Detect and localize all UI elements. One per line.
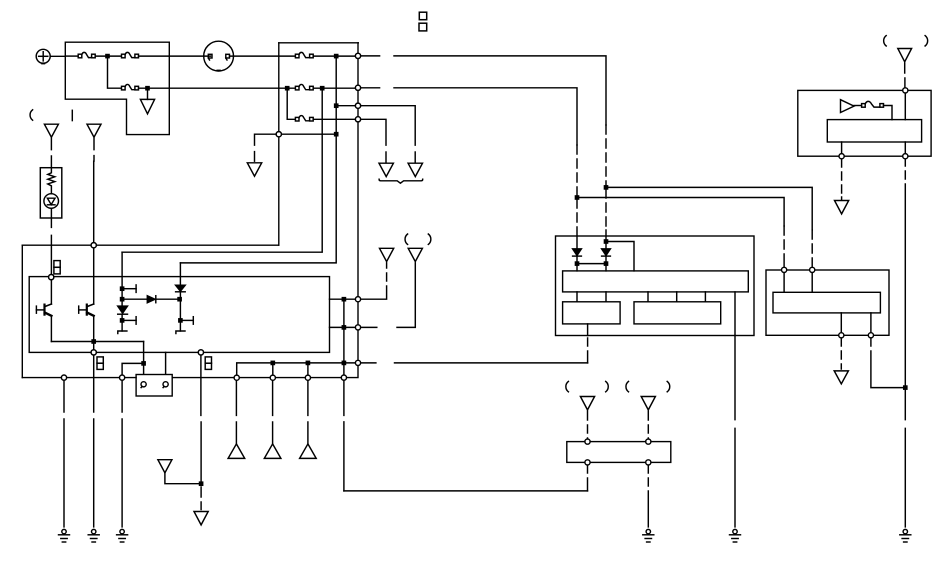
ground bus (outer unit bottom edge) xyxy=(22,366,358,378)
ring fuse box left xyxy=(276,132,281,137)
connector ring inner box bottom right xyxy=(198,350,203,355)
wire lamp to control unit xyxy=(50,208,52,274)
dashed drop to ring xyxy=(811,230,813,267)
rings right control module xyxy=(782,267,787,272)
ignition switch SW1 xyxy=(204,41,234,71)
driver column 1 xyxy=(118,252,136,333)
branch wire to right control unit xyxy=(606,187,812,230)
pin wire y=299 from inner box xyxy=(330,298,359,300)
wire row2 inside box xyxy=(279,87,295,89)
dashed drop to ground xyxy=(647,465,649,527)
connector triangle up xyxy=(264,444,281,459)
dashed drop to rail xyxy=(587,338,589,363)
wire Q1/Q2 emitters to relay xyxy=(51,341,143,343)
feed through wire xyxy=(842,93,906,154)
pin wire y=327 from inner box xyxy=(330,326,359,328)
pin stubs xyxy=(577,292,705,302)
relay box xyxy=(136,375,172,397)
junction dot and branch to logic xyxy=(604,240,607,243)
ground wire from bus ring 1 xyxy=(63,380,65,527)
connector triangle xyxy=(379,163,393,176)
dashed drops into switch block xyxy=(587,411,589,439)
ring inner box top xyxy=(49,275,54,280)
wire to main ground line xyxy=(871,338,905,388)
sensor drop 2 xyxy=(272,380,274,444)
main ground line from left module xyxy=(734,336,736,527)
fuse F2 xyxy=(122,52,139,57)
label bracket ( xyxy=(405,234,408,244)
ring outer box top xyxy=(91,243,96,248)
dashed xyxy=(254,152,256,162)
dashed tail xyxy=(200,487,202,510)
label bracket ( xyxy=(884,36,887,46)
fuse F1 xyxy=(78,52,95,57)
cathode tie wire xyxy=(577,263,606,265)
diagnostic wire from inner box ring xyxy=(200,355,202,482)
dashed drop to lower link xyxy=(587,465,589,491)
legend square 2 xyxy=(419,23,427,31)
diode D1 between columns xyxy=(122,296,181,303)
wire switch to middle fuse box xyxy=(230,55,279,57)
wire row4 to connector drop xyxy=(361,106,416,145)
logic block U4 xyxy=(773,292,880,313)
sub block U3 xyxy=(634,302,721,324)
ground G4 xyxy=(117,529,128,542)
junction dot xyxy=(342,326,345,329)
legend square 1 xyxy=(419,12,426,20)
collector rail xyxy=(237,363,588,378)
ground drop from U1 xyxy=(734,292,736,336)
switch block xyxy=(567,442,671,463)
relay unit box xyxy=(798,90,931,156)
battery B1 xyxy=(36,49,50,63)
wire into transistor Q1 xyxy=(50,280,52,304)
relay block U5 xyxy=(827,120,921,142)
LED lamp xyxy=(44,194,59,209)
junction dot xyxy=(92,340,95,343)
wire ring to connector triangle xyxy=(361,286,387,299)
ground G6 xyxy=(730,529,741,542)
dashed drop to connector xyxy=(840,338,842,369)
branch to ground arrow G1 xyxy=(147,90,149,100)
sub block U2 xyxy=(563,302,621,324)
rings fuse box right edge xyxy=(355,53,360,58)
amplifier triangle xyxy=(841,100,855,113)
main ground line right side xyxy=(904,159,906,527)
fuse F5 xyxy=(295,84,313,89)
junction dot xyxy=(335,133,338,136)
ground wire from Q2 line xyxy=(93,355,95,527)
connector rings overlay xyxy=(49,53,908,465)
Q1 emitter wire down xyxy=(50,316,52,342)
branch down from dot xyxy=(108,58,121,89)
output stubs xyxy=(841,313,871,333)
dashed wire below triangle xyxy=(50,138,52,168)
vertical feed from row1 dot down to wire 263 xyxy=(180,58,336,263)
drop rail x=344 xyxy=(343,299,345,377)
dashed drop to ring xyxy=(783,226,785,267)
dashed drop xyxy=(576,145,578,196)
connector triangle xyxy=(834,371,848,384)
rings ground bus xyxy=(61,375,66,380)
junction dot xyxy=(142,362,145,365)
output drop from U2 xyxy=(587,324,589,336)
connector triangle xyxy=(835,201,849,214)
transistor Q1 xyxy=(36,304,51,316)
sensor drop 1 xyxy=(235,380,237,444)
wire row3 to connector drop xyxy=(361,119,386,145)
junction dot xyxy=(200,482,203,485)
control unit inner box xyxy=(29,277,329,353)
dashed continuation into left control unit xyxy=(605,189,607,249)
junction dot xyxy=(106,55,109,58)
dashed drop xyxy=(605,125,607,186)
branch wire xyxy=(606,242,634,271)
wire row 2 out of box xyxy=(139,87,279,89)
junction dots xyxy=(575,262,578,265)
wire net IG to right units (lower) xyxy=(361,87,380,89)
junction dot xyxy=(335,55,338,58)
wire xyxy=(95,55,120,57)
fuse F7 xyxy=(854,101,884,107)
net drop x=344 to lower link xyxy=(343,380,345,491)
ground wire from bus ring 2 xyxy=(121,380,123,527)
wire net IG to right units (upper) xyxy=(361,55,380,57)
connector ring left edge xyxy=(276,132,281,137)
branch wire to bus ring xyxy=(122,363,144,374)
junction dot xyxy=(286,87,289,90)
diode D2 xyxy=(573,249,582,271)
connector triangle down xyxy=(194,512,208,525)
sensor drop 3 xyxy=(307,380,309,444)
connector ring on control unit top xyxy=(49,275,54,280)
connector triangle xyxy=(247,163,261,176)
wire down to control unit xyxy=(93,161,95,242)
dashed drop below xyxy=(841,159,843,200)
label bracket ) xyxy=(925,36,928,46)
middle fuse box top edge xyxy=(279,42,359,44)
ground G7 xyxy=(900,529,911,542)
left control module box xyxy=(556,236,755,336)
connector triangle up xyxy=(300,444,317,459)
relay second pin wire xyxy=(165,352,167,381)
wire fuse to relay block xyxy=(884,106,893,120)
connector ring on outer box top xyxy=(91,243,96,248)
connector triangle up xyxy=(228,444,245,459)
connector triangle G1 xyxy=(140,99,154,113)
rail stubs to bus xyxy=(273,363,308,378)
dashed drop xyxy=(385,152,387,162)
junction dot xyxy=(321,87,324,90)
right control module box xyxy=(766,270,889,335)
ground G5 xyxy=(643,529,654,542)
underbrace xyxy=(379,179,423,183)
middle fuse box right edge running down xyxy=(357,43,359,363)
wire row1 inside box xyxy=(279,55,295,57)
junction dot xyxy=(146,87,149,90)
fuse F3 xyxy=(122,84,139,89)
wire to ignition switch xyxy=(139,55,211,57)
ground G3 xyxy=(88,529,99,542)
connector triangle xyxy=(408,248,422,261)
dashed continuation into left control unit xyxy=(576,199,578,249)
dashed xyxy=(386,263,388,281)
inline connector (2-cavity) right xyxy=(205,357,211,370)
connector triangle switch 1 xyxy=(580,397,594,410)
Q2 emitter wire down xyxy=(93,316,95,350)
wire battery to fuse box xyxy=(50,55,65,57)
logic block U1 xyxy=(563,271,749,292)
input stubs xyxy=(784,273,812,293)
junction dot xyxy=(604,186,607,189)
lamp unit box xyxy=(40,168,62,218)
wire into transistor Q2 xyxy=(93,248,95,304)
connector triangle top right xyxy=(898,49,912,62)
dashed drop to relay unit xyxy=(904,63,906,88)
wire xyxy=(313,55,358,57)
wire xyxy=(394,56,606,125)
dashed wire below triangle xyxy=(93,138,95,161)
ground G2 xyxy=(59,529,70,542)
wire ring towards triangle with break xyxy=(361,326,377,328)
stub wire left of ring to connector xyxy=(255,134,277,145)
dashed drop xyxy=(414,152,416,162)
connector ring inner box bottom xyxy=(91,350,96,355)
outer unit left edge xyxy=(21,245,23,377)
rings inner box bottom xyxy=(91,350,96,355)
connector rings on right edge xyxy=(355,53,360,58)
inline connector (2-cavity) xyxy=(54,261,60,274)
wire xyxy=(397,263,415,328)
wire row4 xyxy=(336,105,358,107)
branch down to fuse row3 xyxy=(287,90,294,120)
label tick | xyxy=(71,110,73,120)
relay feed wire from Q emitters xyxy=(143,342,145,382)
lower link wire xyxy=(344,490,588,492)
junction dot xyxy=(342,298,345,301)
wire from ring to dot xyxy=(281,133,336,135)
junction dots on rail xyxy=(271,361,274,364)
label brackets for bottom connector xyxy=(566,381,569,391)
fuse box 1 outline xyxy=(65,42,169,134)
column 2 connector triangle xyxy=(87,124,101,137)
junction dot xyxy=(575,196,578,199)
rings top right relay unit xyxy=(903,88,908,93)
indicator lamp column: connector triangle xyxy=(44,124,58,137)
label bracket ) xyxy=(428,234,431,244)
diode D3 xyxy=(602,249,611,271)
resistor R1 xyxy=(48,168,55,194)
inline connector (2-cavity) on Q2 ground line xyxy=(97,357,103,370)
connector triangle xyxy=(408,163,422,176)
side branch connector triangle xyxy=(158,460,172,473)
transistor Q2 xyxy=(79,304,94,316)
driver column 2 xyxy=(176,263,194,334)
wire xyxy=(313,87,358,89)
wire row 1 y=56 xyxy=(65,55,77,57)
side branch wire xyxy=(165,473,200,484)
vertical feed from row1 down to wire 252 xyxy=(122,90,322,252)
wire xyxy=(394,88,577,145)
junction dot xyxy=(335,104,338,107)
branch wire to right control unit xyxy=(577,198,784,227)
connector triangle switch 2 xyxy=(641,397,655,410)
label bracket ( xyxy=(30,110,33,120)
junction dot xyxy=(904,386,907,389)
fuse F4 xyxy=(295,52,313,57)
rings switch block xyxy=(585,439,590,444)
wire row3 xyxy=(313,118,358,120)
relay pin rings xyxy=(141,382,146,387)
fuse F6 xyxy=(295,116,313,121)
connector triangle xyxy=(380,248,394,261)
outer unit top edge xyxy=(22,244,279,246)
middle fuse box left edge running down xyxy=(278,43,280,245)
